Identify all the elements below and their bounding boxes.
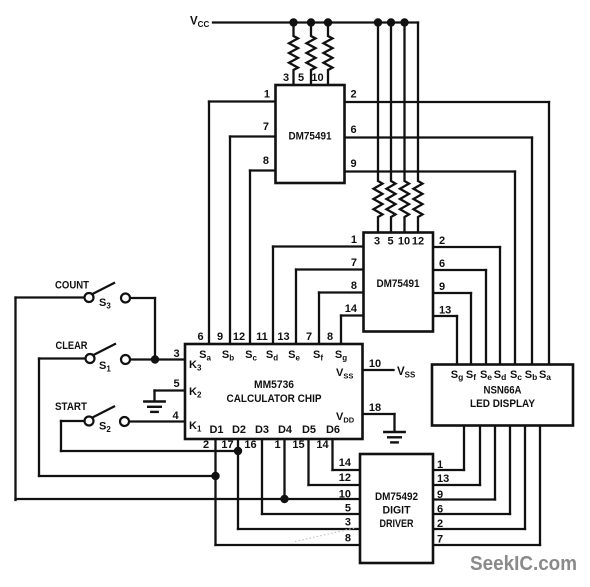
svg-text:3: 3 [283,72,289,84]
svg-text:14: 14 [339,457,352,469]
svg-text:9: 9 [437,489,443,501]
svg-text:10: 10 [311,72,323,84]
svg-text:Sf: Sf [466,369,476,382]
svg-text:Sb: Sb [525,369,538,382]
svg-text:12: 12 [339,472,351,484]
svg-text:6: 6 [439,258,445,270]
svg-text:DM75491: DM75491 [377,278,420,290]
svg-text:2: 2 [437,518,443,530]
svg-text:SeekIC.com: SeekIC.com [470,552,577,575]
svg-text:7: 7 [351,257,357,269]
svg-text:1: 1 [437,459,443,471]
svg-text:4: 4 [172,410,179,422]
svg-text:1: 1 [264,89,270,101]
svg-text:CLEAR: CLEAR [56,340,88,352]
svg-text:9: 9 [439,281,445,293]
svg-text:5: 5 [387,236,393,248]
svg-text:9: 9 [351,158,357,170]
svg-text:D6: D6 [326,424,340,436]
svg-text:3: 3 [173,348,179,360]
svg-text:7: 7 [306,331,312,343]
svg-text:D2: D2 [232,424,246,436]
svg-text:8: 8 [327,331,333,343]
svg-text:DM75491: DM75491 [289,131,332,143]
svg-text:10: 10 [339,489,351,501]
svg-text:NSN66A: NSN66A [484,385,522,397]
svg-text:13: 13 [439,305,451,317]
svg-text:Sc: Sc [510,369,522,382]
svg-text:2: 2 [439,235,445,247]
svg-text:3: 3 [345,517,351,529]
svg-text:12: 12 [412,236,424,248]
svg-text:8: 8 [345,533,351,545]
svg-text:LED DISPLAY: LED DISPLAY [470,398,536,410]
svg-text:D1: D1 [209,424,223,436]
svg-text:Sa: Sa [539,369,551,382]
svg-text:10: 10 [369,358,381,370]
svg-text:CALCULATOR CHIP: CALCULATOR CHIP [227,393,322,405]
svg-text:1: 1 [351,234,357,246]
svg-text:13: 13 [437,473,449,485]
svg-text:D4: D4 [278,424,293,436]
svg-text:2: 2 [351,89,357,101]
svg-text:Se: Se [480,369,492,382]
svg-text:6: 6 [197,331,203,343]
svg-text:10: 10 [398,236,410,248]
svg-text:9: 9 [217,331,223,343]
svg-text:6: 6 [437,504,443,516]
svg-text:START: START [55,401,87,413]
svg-text:7: 7 [437,534,443,546]
svg-text:Sg: Sg [451,369,464,382]
svg-text:6: 6 [351,124,357,136]
svg-text:18: 18 [369,402,381,414]
svg-text:2: 2 [203,439,209,451]
svg-text:D5: D5 [302,424,316,436]
svg-text:1: 1 [274,439,280,451]
svg-text:13: 13 [277,331,289,343]
svg-text:DM75492: DM75492 [375,491,418,503]
svg-text:15: 15 [292,439,304,451]
svg-text:11: 11 [256,331,268,343]
svg-text:17: 17 [221,439,233,451]
svg-text:3: 3 [374,236,380,248]
svg-text:Sd: Sd [494,369,507,382]
svg-text:16: 16 [244,439,256,451]
svg-text:7: 7 [263,121,269,133]
svg-text:5: 5 [345,503,351,515]
svg-text:8: 8 [351,280,357,292]
svg-text:14: 14 [316,439,329,451]
svg-text:12: 12 [233,331,245,343]
svg-text:MM5736: MM5736 [254,379,294,391]
svg-text:DRIVER: DRIVER [380,518,414,530]
svg-text:8: 8 [263,155,269,167]
svg-text:5: 5 [173,378,179,390]
svg-text:COUNT: COUNT [55,280,89,292]
svg-text:5: 5 [298,72,304,84]
svg-text:14: 14 [345,303,358,315]
svg-text:DIGIT: DIGIT [383,505,411,517]
svg-text:D3: D3 [255,424,269,436]
